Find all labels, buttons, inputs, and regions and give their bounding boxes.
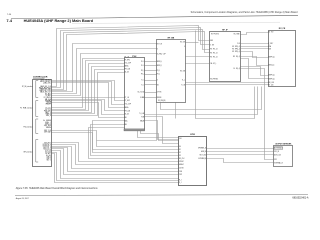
svg-text:CSP: CSP bbox=[179, 174, 182, 176]
svg-text:GND_S: GND_S bbox=[46, 115, 51, 117]
svg-text:RX_IFX_LO: RX_IFX_LO bbox=[210, 53, 218, 55]
svg-text:Schematics, Component Location: Schematics, Component Location Diagrams,… bbox=[191, 11, 299, 14]
svg-text:R_J: R_J bbox=[179, 180, 182, 182]
svg-text:S: S bbox=[157, 48, 158, 50]
svg-text:TL_L: TL_L bbox=[141, 80, 144, 82]
svg-text:HDN_IN: HDN_IN bbox=[201, 151, 206, 153]
svg-text:TL_LLM: TL_LLM bbox=[139, 113, 145, 115]
svg-text:RX_IF(L,J): RX_IF(L,J) bbox=[233, 56, 240, 58]
svg-text:PT_EFC: PT_EFC bbox=[125, 100, 130, 102]
svg-text:MUSC(.)x: MUSC(.)x bbox=[268, 65, 274, 67]
svg-text:RX_IFX_LO: RX_IFX_LO bbox=[210, 56, 218, 58]
svg-text:FX_LLB: FX_LLB bbox=[268, 84, 273, 86]
svg-text:CLK: CLK bbox=[237, 43, 240, 45]
svg-text:Figure 7-65. HUE4045 Main Boa: Figure 7-65. HUE4045 Main Board Overall … bbox=[16, 187, 99, 190]
svg-text:HUE4045A (UHF Range 2) Main Bo: HUE4045A (UHF Range 2) Main Board bbox=[24, 18, 94, 23]
svg-text:PTG_CB: PTG_CB bbox=[125, 110, 131, 112]
svg-text:D3: D3 bbox=[179, 155, 181, 157]
svg-text:5V_EN: 5V_EN bbox=[46, 103, 51, 105]
svg-text:RX1_IN: RX1_IN bbox=[274, 151, 279, 153]
svg-text:PL_L: PL_L bbox=[141, 61, 144, 63]
svg-text:PT_EFC: PT_EFC bbox=[125, 60, 130, 62]
svg-text:THERM: THERM bbox=[46, 127, 52, 129]
svg-text:EXTMEM_B: EXTMEM_B bbox=[199, 158, 207, 160]
svg-text:7.4: 7.4 bbox=[6, 18, 12, 23]
svg-text:RX_PBQ(N): RX_PBQ(N) bbox=[158, 100, 166, 102]
svg-text:SEL_5: SEL_5 bbox=[46, 160, 51, 162]
svg-text:RX_TLB: RX_TLB bbox=[180, 71, 185, 73]
svg-text:CLK: CLK bbox=[179, 138, 182, 140]
svg-text:6816532H01-A: 6816532H01-A bbox=[292, 196, 308, 199]
svg-text:MUFFL(x): MUFFL(x) bbox=[268, 79, 275, 81]
svg-text:RF_IF: RF_IF bbox=[222, 30, 228, 32]
svg-text:DISP_CLK: DISP_CLK bbox=[44, 130, 51, 132]
svg-text:RX_IFP(L,J): RX_IFP(L,J) bbox=[232, 48, 240, 50]
svg-text:PX_J: PX_J bbox=[157, 70, 161, 72]
svg-text:SC_TLOW: SC_TLOW bbox=[137, 92, 144, 94]
svg-text:RF_BB: RF_BB bbox=[168, 37, 175, 39]
svg-text:XX_TLE: XX_TLE bbox=[268, 32, 273, 34]
svg-text:SWB+_1: SWB+_1 bbox=[45, 122, 51, 124]
svg-text:D1: D1 bbox=[179, 149, 181, 151]
svg-text:P_J: P_J bbox=[179, 182, 182, 184]
svg-text:SSSSS: SSSSS bbox=[157, 97, 162, 99]
svg-text:B+_SENSE: B+_SENSE bbox=[43, 120, 51, 122]
svg-text:SL_IF(L,J): SL_IF(L,J) bbox=[233, 68, 240, 70]
svg-text:CONTROLLER: CONTROLLER bbox=[33, 77, 48, 79]
svg-text:OUTPUT NETWORK: OUTPUT NETWORK bbox=[275, 143, 292, 145]
svg-text:PX_J: PX_J bbox=[141, 70, 145, 72]
svg-text:August 24, 2007: August 24, 2007 bbox=[16, 197, 29, 200]
svg-text:S_POS: S_POS bbox=[157, 92, 162, 94]
svg-text:RX_PRESEL: RX_PRESEL bbox=[210, 79, 218, 81]
svg-text:MU_LLM: MU_LLM bbox=[268, 82, 274, 84]
svg-text:D0: D0 bbox=[179, 146, 181, 148]
svg-text:PT_LE: PT_LE bbox=[125, 57, 129, 59]
svg-text:SS: SS bbox=[157, 85, 159, 87]
svg-text:RX_CLK: RX_CLK bbox=[179, 158, 184, 160]
svg-text:PT_LE: PT_LE bbox=[125, 97, 129, 99]
svg-text:SPKRSEL_B: SPKRSEL_B bbox=[198, 148, 206, 150]
svg-text:X_INT: X_INT bbox=[210, 44, 214, 46]
svg-text:REF: REF bbox=[210, 40, 213, 42]
svg-text:MUFFL(x): MUFFL(x) bbox=[268, 57, 275, 59]
svg-text:PTG_CB: PTG_CB bbox=[125, 69, 131, 71]
svg-text:PSU: PSU bbox=[132, 56, 137, 58]
svg-text:SWB+_2: SWB+_2 bbox=[45, 123, 51, 125]
svg-text:EPM: EPM bbox=[190, 134, 195, 136]
svg-text:RX_IFP(L,J): RX_IFP(L,J) bbox=[232, 51, 240, 53]
svg-text:GND_SNS: GND_SNS bbox=[44, 125, 51, 127]
svg-text:9V3_EN: 9V3_EN bbox=[45, 101, 50, 103]
svg-text:LB_LB: LB_LB bbox=[125, 114, 129, 116]
svg-text:SPKR_J: SPKR_J bbox=[157, 65, 163, 67]
svg-text:PX_J: PX_J bbox=[141, 74, 145, 76]
svg-text:LB_LB: LB_LB bbox=[125, 72, 129, 74]
svg-text:TL_LB: TL_LB bbox=[181, 84, 185, 86]
svg-text:RX_FRONTD: RX_FRONTD bbox=[211, 34, 219, 36]
svg-text:RX_IFP(L,J): RX_IFP(L,J) bbox=[232, 46, 240, 48]
svg-text:XXE: XXE bbox=[268, 48, 271, 50]
svg-text:SPKR_L: SPKR_L bbox=[157, 61, 163, 63]
svg-text:40MHZ: 40MHZ bbox=[179, 164, 184, 166]
svg-text:TXC_CXP: TXC_CXP bbox=[125, 104, 131, 106]
svg-text:X_XFLT: X_XFLT bbox=[268, 43, 273, 45]
svg-text:RX_TLE: RX_TLE bbox=[180, 42, 185, 44]
svg-text:CSB: CSB bbox=[179, 171, 182, 173]
svg-text:MUFFL(x): MUFFL(x) bbox=[268, 75, 275, 77]
svg-text:PX_J: PX_J bbox=[157, 74, 161, 76]
svg-text:D2: D2 bbox=[179, 152, 181, 154]
svg-text:RX2: RX2 bbox=[274, 159, 277, 161]
svg-text:SC_PBQ_CXP: SC_PBQ_CXP bbox=[157, 54, 166, 56]
svg-text:S: S bbox=[157, 80, 158, 82]
svg-text:RX_FE: RX_FE bbox=[279, 28, 286, 30]
svg-text:TL_L: TL_L bbox=[141, 85, 144, 87]
svg-text:MLJ: MLJ bbox=[125, 124, 128, 126]
svg-text:PL_L: PL_L bbox=[141, 65, 144, 67]
svg-text:RX_TLE: RX_TLE bbox=[157, 43, 162, 45]
svg-text:MOT_LED: MOT_LED bbox=[200, 155, 207, 157]
svg-text:RX_IFX_LO: RX_IFX_LO bbox=[210, 49, 218, 51]
svg-text:FSYNC: FSYNC bbox=[179, 161, 184, 163]
svg-text:TL_L: TL_L bbox=[182, 80, 185, 82]
svg-text:S: S bbox=[184, 46, 185, 48]
svg-text:TXC_CXP: TXC_CXP bbox=[125, 63, 131, 65]
